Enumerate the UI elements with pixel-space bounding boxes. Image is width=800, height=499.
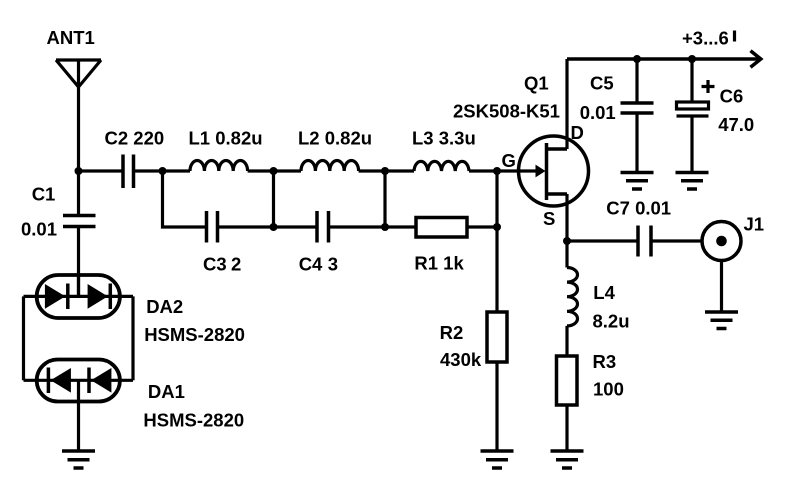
wire (R2 to ground) (495, 362, 498, 451)
svg-text:D: D (571, 122, 584, 143)
diode pair DA2 (24, 275, 245, 345)
wire (L4 to R3) (565, 326, 568, 356)
wire (J1 to ground) (720, 261, 723, 313)
node C (L1/L2/C3 junction) (270, 167, 278, 175)
capacitor C7 (606, 198, 671, 257)
wire (node B branch down to C3 row) (163, 171, 207, 227)
ground (below R2) (481, 451, 514, 468)
node E (gate/R1/R2 junction top) (493, 167, 501, 175)
transistor Q1 (453, 73, 589, 230)
wire (node E down to R1 node) (495, 171, 498, 227)
node B (C2/L1/C3-branch junction) (159, 167, 167, 175)
svg-text:C6: C6 (720, 85, 744, 106)
wire (R3 to ground) (565, 405, 568, 451)
wire (C2 to node B) (134, 169, 191, 172)
wire (C7 to J1) (651, 239, 702, 242)
svg-text:R2: R2 (440, 322, 464, 343)
ground (below DA1) (62, 451, 95, 468)
ground (below J1) (705, 312, 738, 329)
svg-text:2: 2 (231, 253, 241, 274)
svg-text:L1 0.82u: L1 0.82u (189, 128, 263, 149)
svg-text:2SK508-K51: 2SK508-K51 (453, 100, 560, 121)
svg-text:DA2: DA2 (146, 296, 183, 317)
ground (below R3) (551, 451, 584, 468)
svg-text:L2 0.82u: L2 0.82u (298, 128, 372, 149)
svg-text:C1: C1 (32, 184, 56, 205)
wire (DA1 center to ground) (77, 380, 80, 451)
svg-text:0.01: 0.01 (21, 219, 57, 240)
node H (source/L4/C7 junction) (563, 237, 571, 245)
svg-text:47.0: 47.0 (718, 114, 754, 135)
wire (source lead down to node H) (565, 194, 568, 241)
capacitor C6 (polarized) (677, 80, 755, 135)
node D1 (L2/L3/C4 junction) (381, 167, 389, 175)
net label +3...6V (682, 28, 735, 49)
wire (supply rail) (567, 57, 760, 61)
svg-text:C7 0.01: C7 0.01 (606, 198, 671, 219)
wire (right rail DA2-DA1) (131, 296, 134, 380)
resistor R3 (557, 351, 624, 405)
ground (below C5) (621, 173, 654, 190)
wire (C1 bottom to DA2 center) (77, 227, 80, 297)
wire (C6 to ground) (690, 116, 693, 173)
svg-text:HSMS-2820: HSMS-2820 (143, 410, 244, 431)
svg-text:C4: C4 (299, 253, 323, 274)
svg-text:+3...6: +3...6 (682, 28, 729, 49)
inductor L3 (412, 128, 476, 172)
svg-text:L3 3.3u: L3 3.3u (412, 128, 476, 149)
wire (L3 to gate arrow) (469, 169, 537, 172)
resistor R1 (414, 218, 467, 274)
svg-text:C3: C3 (203, 253, 227, 274)
wire (node F down to R2) (495, 227, 498, 312)
capacitor C3 (203, 211, 241, 274)
svg-text:R1 1k: R1 1k (414, 253, 464, 274)
svg-text:0.01: 0.01 (580, 102, 616, 123)
wire (R1 to node F) (467, 225, 497, 228)
svg-text:C2 220: C2 220 (105, 128, 165, 149)
svg-text:100: 100 (593, 379, 624, 400)
svg-text:DA1: DA1 (148, 381, 185, 402)
capacitor C4 (299, 211, 338, 274)
capacitor C1 (21, 184, 96, 240)
wire (main rail node A to C2) (79, 169, 124, 172)
inductor L1 (189, 128, 263, 172)
svg-text:S: S (543, 208, 555, 229)
svg-text:3: 3 (328, 253, 338, 274)
node C2b (C3/C4 row junction) (270, 223, 278, 231)
node D2b (C4/R1 row junction) (381, 223, 389, 231)
svg-text:R3: R3 (593, 351, 617, 372)
svg-text:G: G (502, 150, 516, 171)
node G2 (rail/C6) (688, 55, 696, 63)
wire (L1 to L2) (248, 169, 301, 172)
node A (antenna/C2/C1 junction) (75, 167, 83, 175)
antenna ANT1 (47, 27, 102, 171)
ground (below C6) (676, 173, 709, 190)
svg-text:C5: C5 (590, 73, 614, 94)
wire (L2 to L3) (359, 169, 414, 172)
capacitor C2 (105, 128, 165, 189)
gate arrow of Q1 (536, 165, 546, 178)
capacitor C5 (580, 73, 654, 123)
wire (left rail DA2-DA1) (22, 296, 25, 380)
wire (rail to C6) (690, 59, 693, 102)
svg-text:L4: L4 (593, 282, 615, 303)
wire (node C down to C3/C4 row) (272, 171, 275, 227)
wire (node H down to L4) (565, 241, 568, 268)
inductor L2 (298, 128, 372, 172)
wire (C4 to R1) (329, 225, 417, 228)
connector J1 (702, 214, 764, 261)
supply arrow (751, 51, 761, 68)
inductor L4 (567, 268, 630, 332)
wire (rail to C5) (635, 59, 638, 103)
wire (C5 to ground) (635, 113, 638, 173)
wire (drain lead up to rail) (565, 59, 568, 149)
node G1 (rail/C5) (633, 55, 641, 63)
svg-text:430k: 430k (440, 349, 482, 370)
wire (node H to C7) (567, 239, 638, 242)
resistor R2 (440, 312, 507, 370)
wire (C3 to node C bottom) (218, 225, 318, 228)
wire (node A to C1 top) (77, 171, 80, 216)
wire (node D1 down to C4/R1 row) (383, 171, 386, 227)
svg-text:Q1: Q1 (524, 73, 549, 94)
node F (R1/R2 junction) (493, 223, 501, 231)
svg-text:ANT1: ANT1 (47, 27, 95, 48)
svg-text:HSMS-2820: HSMS-2820 (144, 324, 245, 345)
diode pair DA1 (24, 360, 245, 431)
svg-text:8.2u: 8.2u (593, 311, 630, 332)
svg-text:J1: J1 (744, 214, 765, 235)
